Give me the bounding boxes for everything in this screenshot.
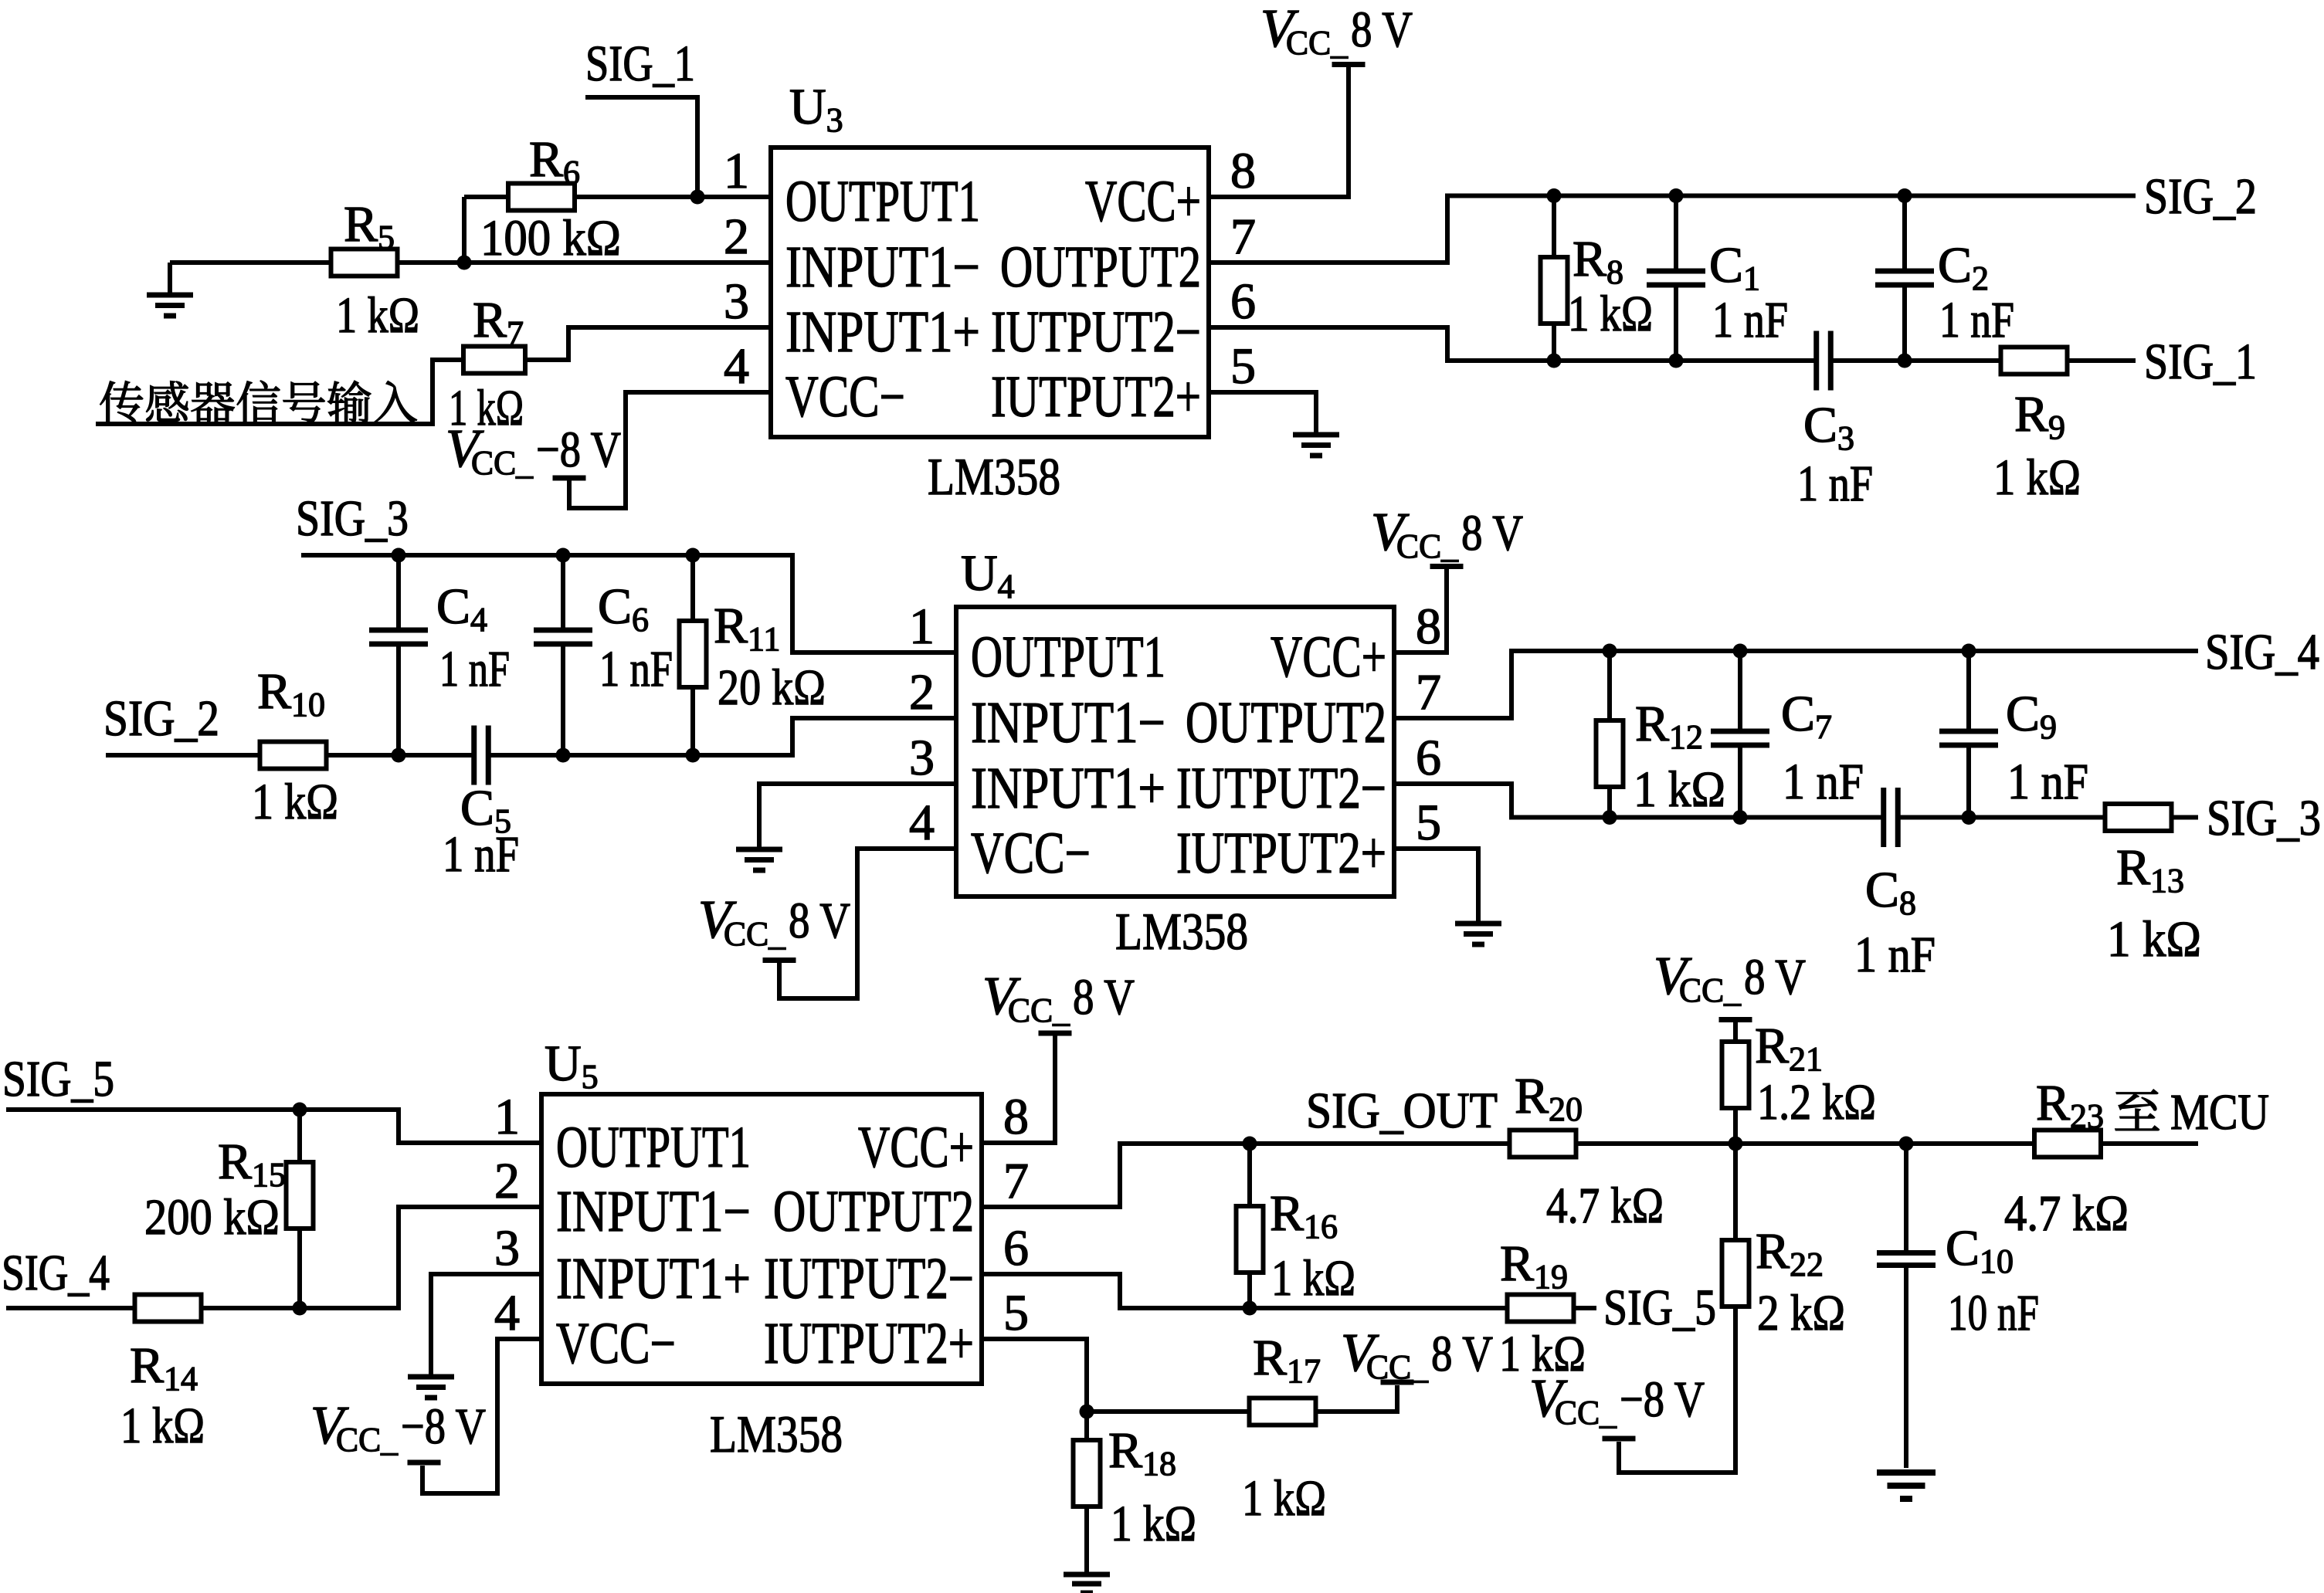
svg-text:1 kΩ: 1 kΩ: [1111, 1496, 1196, 1552]
wire R14 to pin2: [201, 1207, 541, 1308]
wire R13 to SIG_3: [2171, 815, 2198, 820]
U4 pin 4 number: [909, 795, 935, 851]
svg-text:1 nF: 1 nF: [599, 641, 673, 697]
svg-text:200 kΩ: 200 kΩ: [144, 1189, 280, 1246]
node dot R16 bottom: [1243, 1301, 1257, 1316]
svg-text:8 V: 8 V: [1431, 1326, 1493, 1382]
wire C2 bottom stem: [1902, 285, 1907, 361]
svg-text:IUTPUT2−: IUTPUT2−: [1176, 756, 1386, 821]
svg-text:1 kΩ: 1 kΩ: [120, 1398, 205, 1454]
svg-text:INPUT1+: INPUT1+: [971, 756, 1165, 821]
wire R8 bottom stub: [1552, 324, 1556, 361]
svg-text:VCC−: VCC−: [556, 1311, 676, 1376]
R20 value 4.7 kOhm: [1546, 1178, 1664, 1234]
wire R12 bottom stub: [1607, 786, 1612, 818]
wire C7 bottom stem: [1738, 745, 1742, 818]
svg-text:8: 8: [1003, 1089, 1029, 1145]
U4 pin label OUTPUT1: [971, 625, 1165, 690]
C3 value 1 nF: [1797, 456, 1873, 512]
svg-text:1 nF: 1 nF: [1797, 456, 1873, 512]
R21 refdes: [1755, 1018, 1823, 1078]
svg-text:VCC−: VCC−: [785, 364, 905, 429]
ground (left, R5): [147, 295, 193, 316]
R23 value 4.7 kOhm: [2004, 1185, 2129, 1242]
op-amp U3 part number LM358: [928, 447, 1060, 506]
node dot R11 bottom: [686, 748, 701, 763]
svg-text:7: 7: [1416, 664, 1441, 720]
wire pin 1: [464, 195, 771, 199]
R22 value 2 kOhm: [1757, 1285, 1845, 1341]
resistor R21: [1722, 1042, 1749, 1108]
svg-text:3: 3: [494, 1220, 520, 1276]
U4 pin label OUTPUT2: [1186, 690, 1386, 755]
wire C2 top stem: [1902, 196, 1907, 272]
U3 pin label VCC-: [785, 364, 905, 429]
wire U4 pin 8 to Vcc8V: [1394, 569, 1447, 652]
U4 pin label VCC+: [1271, 625, 1386, 690]
svg-text:VCC+: VCC+: [858, 1115, 974, 1180]
U4 pin label INPUT1-: [971, 690, 1165, 755]
node dot C9 bottom: [1962, 810, 1976, 825]
R17 value 1 kOhm: [1242, 1470, 1326, 1527]
svg-text:SIG_4: SIG_4: [2, 1245, 110, 1301]
R16 refdes: [1270, 1185, 1338, 1246]
svg-text:8 V: 8 V: [1073, 969, 1135, 1025]
R15 value 200 kOhm: [144, 1189, 280, 1246]
wire R5-R6 vertical: [462, 197, 466, 263]
resistor R19: [1508, 1295, 1574, 1322]
svg-text:INPUT1+: INPUT1+: [785, 300, 980, 364]
wire R22 top stub: [1733, 1144, 1738, 1241]
R18 value 1 kOhm: [1111, 1496, 1196, 1552]
svg-text:VCC+: VCC+: [1271, 625, 1386, 690]
wire pin 4 to Vcc-8V: [569, 392, 771, 508]
U5 pin 7 number: [1003, 1153, 1029, 1209]
node dot R12 bottom: [1603, 810, 1617, 825]
net label SIG_1 (row1 right): [2144, 334, 2257, 390]
supply bar Vcc-8V (row1): [553, 476, 586, 481]
svg-text:1 nF: 1 nF: [2007, 754, 2088, 810]
resistor R15: [287, 1162, 314, 1229]
svg-text:CC_: CC_: [336, 1421, 399, 1459]
R8 value 1 kOhm: [1568, 286, 1653, 342]
ground (R18): [1064, 1574, 1110, 1593]
capacitor C3 (series): [1817, 331, 1831, 391]
U5 pin 5 number: [1003, 1285, 1029, 1341]
node dot C4 bottom: [392, 748, 406, 763]
node dot R12 top: [1603, 644, 1617, 659]
supply bar Vcc8V (R21): [1719, 1017, 1752, 1022]
wire pin 2: [464, 260, 771, 265]
node dot R11 top: [686, 548, 701, 563]
svg-text:2: 2: [494, 1153, 520, 1209]
supply bar Vcc8V (R17): [1381, 1380, 1414, 1385]
net label SIG_3 (row2 top): [296, 490, 409, 547]
U5 pin 4 number: [494, 1285, 520, 1341]
svg-text:6: 6: [1230, 273, 1256, 330]
U5 pin 1 number: [494, 1089, 520, 1145]
node dot R16 top: [1243, 1137, 1257, 1151]
C3 refdes: [1803, 397, 1854, 457]
svg-text:CC_: CC_: [1008, 991, 1070, 1029]
svg-text:1 kΩ: 1 kΩ: [336, 287, 419, 344]
node dot R21/R22: [1729, 1137, 1743, 1151]
U3 pin 6 number: [1230, 273, 1256, 330]
net label Vcc_8V (R21): [1654, 947, 1806, 1009]
svg-text:INPUT1−: INPUT1−: [971, 690, 1165, 755]
wire R15 bottom stub: [297, 1228, 302, 1308]
svg-text:OUTPUT1: OUTPUT1: [785, 169, 980, 234]
wire C5 to pin2 jog: [488, 718, 956, 755]
R10 value 1 kOhm: [252, 774, 338, 830]
svg-text:8 V: 8 V: [1351, 2, 1413, 58]
C7 value 1 nF: [1783, 754, 1864, 810]
svg-text:SIG_1: SIG_1: [585, 36, 695, 92]
U3 pin label OUTPUT2: [1000, 235, 1201, 300]
svg-text:CC_: CC_: [471, 444, 534, 482]
svg-text:IUTPUT2−: IUTPUT2−: [991, 300, 1201, 364]
svg-text:IUTPUT2+: IUTPUT2+: [991, 364, 1201, 429]
wire C10 node to R23: [1906, 1141, 2034, 1146]
svg-text:CC_: CC_: [1286, 24, 1349, 62]
wire R16 top stub: [1247, 1144, 1252, 1207]
wire U5 pin 8 to Vcc8V: [982, 1035, 1055, 1143]
svg-text:SIG_3: SIG_3: [296, 490, 409, 547]
svg-text:SIG_2: SIG_2: [103, 690, 219, 747]
capacitor C1: [1647, 271, 1705, 285]
U3 pin 7 number: [1230, 208, 1256, 265]
node dot R15 top: [293, 1103, 307, 1117]
svg-text:1 kΩ: 1 kΩ: [1993, 449, 2081, 506]
supply bar Vcc-8V (R22): [1603, 1436, 1636, 1442]
supply bar Vcc8V (U4 pin8): [1430, 564, 1464, 569]
svg-text:4: 4: [909, 795, 935, 851]
U5 pin 2 number: [494, 1153, 520, 1209]
node dot C6 bottom: [556, 748, 571, 763]
svg-text:SIG_3: SIG_3: [2207, 790, 2321, 846]
wire R11 top stub: [690, 555, 695, 622]
capacitor C10: [1877, 1253, 1936, 1266]
node dot C2 top: [1898, 188, 1912, 203]
svg-text:LM358: LM358: [1115, 902, 1248, 961]
R20 refdes: [1515, 1068, 1583, 1128]
svg-text:1 kΩ: 1 kΩ: [2107, 911, 2201, 968]
svg-text:SIG_1: SIG_1: [2144, 334, 2257, 390]
svg-text:3: 3: [909, 730, 935, 786]
wire U4 pin 5 to ground: [1394, 849, 1478, 921]
wire R10 to C5: [326, 753, 474, 758]
R6 value 100 kOhm: [480, 210, 621, 266]
wire U5 pin 5 down: [982, 1339, 1087, 1412]
net label SIG_3 (row2 right): [2207, 790, 2321, 846]
wire SIG_3 top rail: [301, 555, 956, 652]
svg-text:1: 1: [724, 143, 749, 199]
svg-text:1 nF: 1 nF: [443, 826, 519, 883]
wire sensor input: [96, 360, 463, 424]
svg-text:1 nF: 1 nF: [1854, 927, 1936, 983]
wire U5 pin 6 to rail: [982, 1274, 1508, 1308]
U5 pin label INPUT1-: [556, 1179, 751, 1244]
wire pin 5 to ground: [1209, 392, 1316, 432]
supply bar Vcc8V (U5 pin8): [1039, 1031, 1072, 1036]
net label Vcc_8V (R17): [1341, 1324, 1493, 1386]
C10 value 10 nF: [1948, 1285, 2039, 1341]
resistor R11: [680, 621, 707, 687]
C7 refdes: [1781, 686, 1832, 746]
svg-text:8 V: 8 V: [789, 893, 850, 949]
R14 refdes: [130, 1337, 198, 1398]
svg-text:1 nF: 1 nF: [1939, 292, 2014, 348]
U5 pin label IUTPUT2-: [764, 1246, 974, 1311]
svg-text:VCC+: VCC+: [1085, 169, 1201, 234]
net label SIG_4 (row3 left): [2, 1245, 110, 1301]
wire R9 to SIG_1: [2067, 358, 2136, 363]
svg-text:2 kΩ: 2 kΩ: [1757, 1285, 1845, 1341]
U5 pin label OUTPUT2: [773, 1179, 974, 1244]
wire R17 to Vcc8V: [1315, 1385, 1397, 1412]
svg-text:CC_: CC_: [1396, 527, 1459, 565]
R13 refdes: [2116, 839, 2184, 900]
U3 pin 8 number: [1230, 143, 1256, 199]
resistor R23: [2034, 1130, 2101, 1157]
U3 pin 3 number: [724, 273, 749, 330]
svg-text:CC_: CC_: [1366, 1348, 1429, 1386]
wire R22 to Vcc-8V: [1619, 1306, 1735, 1473]
net label SIG_OUT: [1306, 1083, 1498, 1139]
U4 pin 2 number: [909, 664, 935, 720]
svg-text:1 kΩ: 1 kΩ: [252, 774, 338, 830]
R6 refdes: [529, 131, 580, 191]
svg-text:8: 8: [1416, 598, 1441, 655]
node dot C4 top: [392, 548, 406, 563]
C8 refdes: [1865, 862, 1916, 922]
U3 pin label INPUT1+: [785, 300, 980, 364]
svg-text:8 V: 8 V: [1744, 949, 1806, 1005]
wire R16 bottom stub: [1247, 1272, 1252, 1308]
svg-text:1 kΩ: 1 kΩ: [1271, 1250, 1355, 1307]
node dot C7 bottom: [1733, 810, 1748, 825]
wire U4 pin 7 to rail: [1394, 651, 2198, 718]
capacitor C7: [1711, 731, 1769, 745]
ground (U4 pin5): [1455, 924, 1501, 944]
wire R21 node to C10 node: [1735, 1141, 1906, 1146]
R11 refdes: [714, 598, 780, 658]
wire R20 to R21 node: [1576, 1141, 1735, 1146]
net label Vcc_-8V (R22): [1529, 1369, 1705, 1432]
R19 value 1 kOhm: [1499, 1326, 1586, 1382]
R13 value 1 kOhm: [2107, 911, 2201, 968]
net label SIG_2 (row1 right): [2144, 168, 2257, 225]
C2 value 1 nF: [1939, 292, 2014, 348]
U3 pin label VCC+: [1085, 169, 1201, 234]
resistor R17: [1250, 1398, 1316, 1425]
svg-text:7: 7: [1230, 208, 1256, 265]
wire SIG_2 to R10: [106, 753, 260, 758]
capacitor C4: [369, 630, 428, 644]
op-amp U4 box: [956, 607, 1394, 896]
wire SIG_5 to pin1: [6, 1110, 541, 1143]
svg-text:INPUT1−: INPUT1−: [785, 235, 980, 300]
net label Vcc_-8V (row1): [446, 419, 621, 482]
svg-text:1 nF: 1 nF: [439, 641, 510, 697]
supply bar Vcc8V (row1): [1332, 62, 1366, 67]
wire C10 top stem: [1904, 1144, 1908, 1252]
wire C9 bottom stem: [1966, 745, 1971, 818]
supply bar Vcc-8V (U5 pin4): [408, 1460, 441, 1466]
U3 pin 4 number: [724, 338, 749, 395]
C6 value 1 nF: [599, 641, 673, 697]
U3 pin label INPUT1-: [785, 235, 980, 300]
wire R11 bottom stub: [690, 686, 695, 755]
svg-text:5: 5: [1230, 338, 1256, 395]
R14 value 1 kOhm: [120, 1398, 205, 1454]
R15 refdes: [218, 1134, 286, 1194]
C6 refdes: [598, 578, 649, 639]
svg-text:LM358: LM358: [710, 1405, 843, 1463]
supply bar Vcc8V (U4 pin4): [763, 957, 796, 963]
svg-text:4.7 kΩ: 4.7 kΩ: [1546, 1178, 1664, 1234]
R9 value 1 kOhm: [1993, 449, 2081, 506]
R17 refdes: [1253, 1330, 1321, 1390]
wire R18 to ground: [1084, 1506, 1089, 1572]
svg-text:5: 5: [1003, 1285, 1029, 1341]
op-amp U5 box: [541, 1094, 982, 1384]
wire C10 bottom stem: [1904, 1266, 1908, 1468]
svg-text:1 kΩ: 1 kΩ: [1568, 286, 1653, 342]
svg-text:8: 8: [1230, 143, 1256, 199]
resistor R9: [2001, 347, 2068, 375]
C10 refdes: [1946, 1220, 2014, 1280]
resistor R7: [463, 347, 525, 374]
svg-text:SIG_OUT: SIG_OUT: [1306, 1083, 1498, 1139]
C5 refdes: [460, 780, 511, 840]
svg-text:IUTPUT2+: IUTPUT2+: [1176, 821, 1386, 886]
wire R5 to ground lead: [170, 260, 464, 265]
svg-text:IUTPUT2+: IUTPUT2+: [764, 1311, 974, 1376]
svg-text:SIG_5: SIG_5: [2, 1051, 114, 1107]
U5 pin 8 number: [1003, 1089, 1029, 1145]
U5 pin 3 number: [494, 1220, 520, 1276]
wire SIG_4 to R14: [6, 1306, 135, 1310]
R5 refdes: [344, 196, 395, 256]
U4 pin 1 number: [909, 598, 935, 655]
svg-text:1 kΩ: 1 kΩ: [1242, 1470, 1326, 1527]
U5 pin label IUTPUT2+: [764, 1311, 974, 1376]
node dot C2 bottom: [1898, 354, 1912, 368]
capacitor C9: [1939, 731, 1998, 745]
svg-text:−8 V: −8 V: [536, 422, 621, 478]
resistor R16: [1237, 1206, 1264, 1273]
resistor R10: [260, 742, 327, 769]
resistor R14: [135, 1295, 202, 1322]
net label SIG_4 (row2 right): [2205, 624, 2319, 680]
wire R18 top stub: [1084, 1412, 1089, 1441]
svg-text:7: 7: [1003, 1153, 1029, 1209]
wire C6 top stem: [561, 555, 565, 630]
svg-text:100 kΩ: 100 kΩ: [480, 210, 621, 266]
svg-text:1 nF: 1 nF: [1783, 754, 1864, 810]
U5 pin label OUTPUT1: [556, 1115, 751, 1180]
U3 pin label OUTPUT1: [785, 169, 980, 234]
svg-text:IUTPUT2−: IUTPUT2−: [764, 1246, 974, 1311]
net label Vcc_8V (U4 pin8): [1371, 503, 1523, 565]
wire pin 8 to Vcc8V: [1209, 67, 1349, 197]
wire C7 top stem: [1738, 651, 1742, 731]
capacitor C2: [1875, 271, 1934, 285]
svg-text:2: 2: [909, 664, 935, 720]
U3 pin label IUTPUT2+: [991, 364, 1201, 429]
wire SIG_1 stub: [585, 97, 697, 197]
resistor R5: [331, 249, 398, 276]
node dot C9 top: [1962, 644, 1976, 659]
wire U5 pin 3 to ground: [431, 1274, 541, 1374]
resistor R8: [1541, 257, 1568, 324]
node dot R17/R18: [1080, 1405, 1094, 1419]
wire U4 pin 6 to rail: [1394, 784, 1882, 818]
wire R21 top stub: [1733, 1022, 1738, 1042]
C1 value 1 nF: [1712, 292, 1788, 348]
resistor R12: [1596, 720, 1623, 787]
wire C6 bottom stem: [561, 644, 565, 755]
wire pin 6 to rail: [1209, 327, 1817, 361]
node dot C1 top: [1669, 188, 1684, 203]
wire U5 pin 4 to Vcc-8V: [422, 1339, 541, 1493]
svg-text:−8 V: −8 V: [401, 1398, 486, 1455]
net label SIG_2 (row2 left): [103, 690, 219, 747]
svg-text:SIG_5: SIG_5: [1603, 1279, 1716, 1336]
svg-text:3: 3: [724, 273, 749, 330]
node dot C7 top: [1733, 644, 1748, 659]
U3 pin 2 number: [724, 208, 749, 265]
resistor R6: [508, 184, 575, 211]
U5 pin 6 number: [1003, 1220, 1029, 1276]
svg-text:CC_: CC_: [1555, 1394, 1617, 1432]
svg-text:MCU: MCU: [2170, 1084, 2269, 1141]
R8 refdes: [1573, 231, 1623, 291]
C8 value 1 nF: [1854, 927, 1936, 983]
node junction dot R5/pin2: [457, 256, 472, 270]
U5 pin label INPUT1+: [556, 1246, 751, 1311]
svg-text:OUTPUT1: OUTPUT1: [971, 625, 1165, 690]
U4 pin 8 number: [1416, 598, 1441, 655]
label sensor signal input (Chinese): [100, 381, 417, 423]
wire C1 bottom stem: [1674, 285, 1678, 361]
svg-text:OUTPUT2: OUTPUT2: [773, 1179, 974, 1244]
node dot C1 bottom: [1669, 354, 1684, 368]
R11 value 20 kOhm: [718, 659, 826, 716]
wire R21 bottom stub: [1733, 1107, 1738, 1144]
svg-text:8 V: 8 V: [1461, 505, 1523, 561]
svg-text:OUTPUT2: OUTPUT2: [1000, 235, 1201, 300]
C5 value 1 nF: [443, 826, 519, 883]
node dot C6 top: [556, 548, 571, 563]
svg-text:4: 4: [724, 338, 749, 395]
R9 refdes: [2014, 386, 2065, 446]
wire U4 pin 4 to Vcc8V: [779, 849, 956, 998]
capacitor C6: [534, 630, 592, 644]
net label Vcc_-8V (U5 pin4): [310, 1396, 486, 1459]
wire C3 to R9: [1830, 358, 2001, 363]
wire C1 top stem: [1674, 196, 1678, 272]
svg-text:1 nF: 1 nF: [1712, 292, 1788, 348]
svg-text:SIG_4: SIG_4: [2205, 624, 2319, 680]
net label Vcc_8V (U4 pin4): [698, 890, 850, 953]
net label Vcc_8V (row1): [1260, 0, 1413, 62]
svg-text:CC_: CC_: [1679, 971, 1742, 1009]
wire R8 top stub: [1552, 196, 1556, 258]
op-amp U3 box: [771, 147, 1209, 437]
svg-text:10 nF: 10 nF: [1948, 1285, 2039, 1341]
